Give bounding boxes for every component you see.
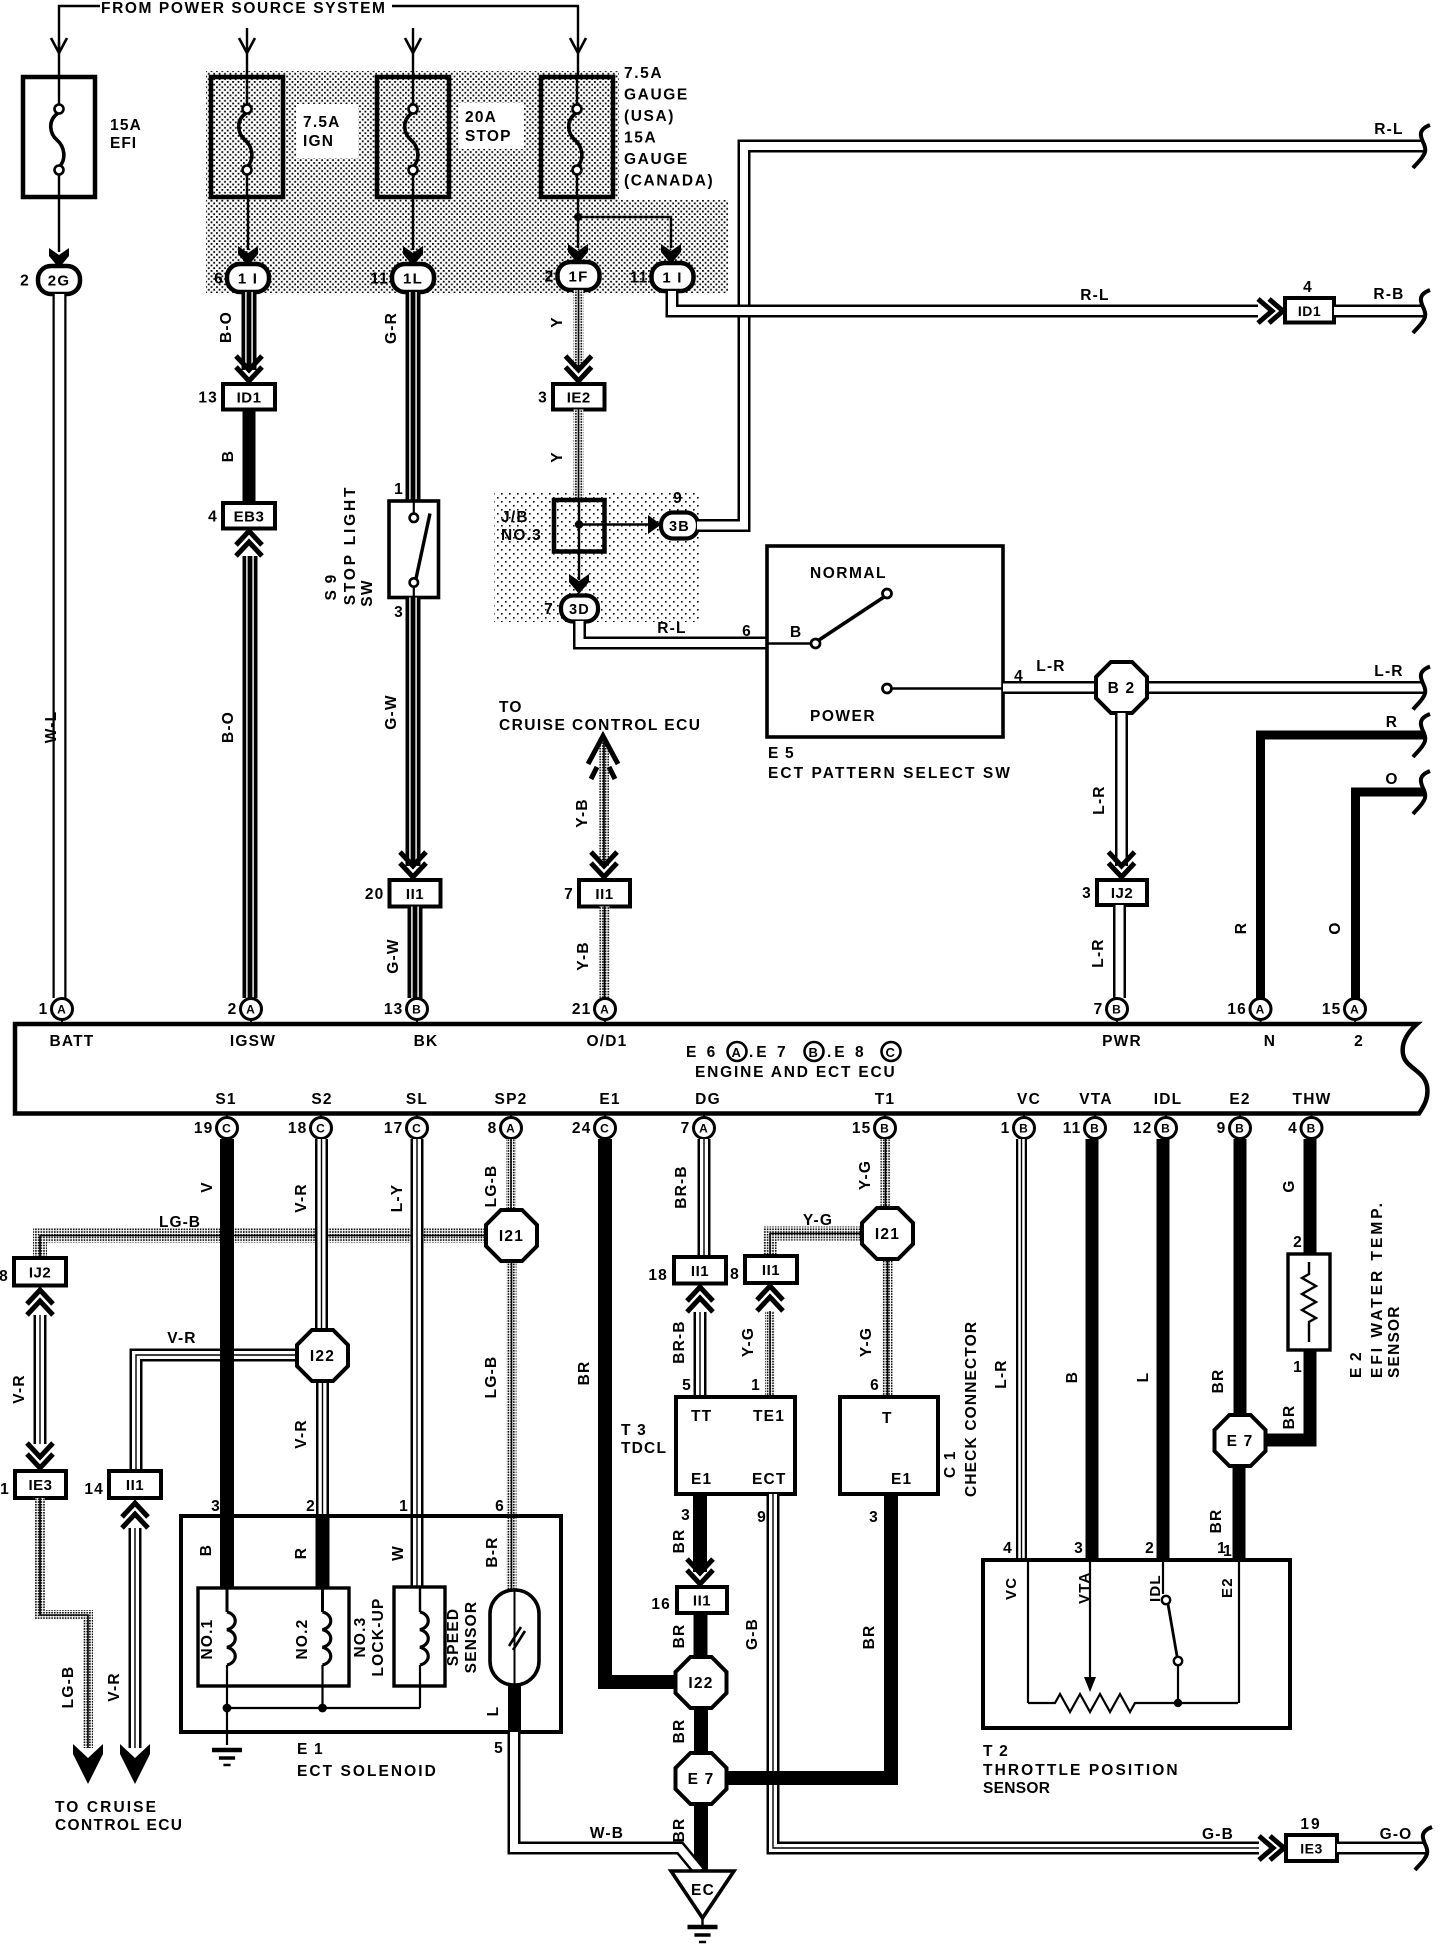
svg-text:Y-G: Y-G (858, 1327, 875, 1357)
svg-text:T 2: T 2 (983, 1743, 1009, 1760)
wire B: VTA to throttle sensor (1086, 1139, 1099, 1560)
wire Y-G: I21 left to II1 (8) (770, 1234, 865, 1257)
svg-text:BR: BR (671, 1719, 688, 1744)
svg-text:A: A (600, 1003, 610, 1017)
wire: feed to GAUGE fuse (577, 34, 579, 77)
svg-text:I22: I22 (688, 1675, 713, 1692)
svg-text:G: G (1281, 1179, 1298, 1192)
ECU pin 7(B) PWR (1116, 998, 1118, 1022)
svg-text:W-L: W-L (43, 711, 60, 744)
svg-text:BR: BR (576, 1361, 593, 1386)
wire G: THW to water temp sensor (1304, 1139, 1317, 1256)
wire: IGN fuse to 1I (247, 197, 249, 250)
svg-text:C: C (316, 1122, 326, 1136)
svg-text:20A: 20A (465, 109, 497, 126)
svg-text:1F: 1F (569, 269, 589, 286)
svg-text:IDL: IDL (1154, 1091, 1183, 1108)
wire G-W: II1 to ECU BK (408, 907, 423, 999)
wire: feed to IGN fuse (246, 28, 248, 77)
svg-text:SPEED: SPEED (445, 1608, 462, 1667)
svg-text:L: L (1135, 1372, 1152, 1383)
svg-text:LG-B: LG-B (60, 1666, 77, 1709)
wire: J/B to 3D (578, 552, 580, 581)
svg-text:C 1: C 1 (942, 1450, 959, 1478)
svg-text:A: A (246, 1003, 256, 1017)
svg-text:7: 7 (1094, 1001, 1104, 1018)
fuse 15A EFI (23, 77, 95, 197)
wire L: IDL to throttle sensor (1157, 1139, 1170, 1560)
svg-text:15: 15 (1322, 1001, 1342, 1018)
svg-text:2: 2 (1293, 1234, 1303, 1251)
svg-text:NORMAL: NORMAL (810, 565, 887, 582)
svg-text:.E 8: .E 8 (827, 1044, 867, 1061)
svg-text:2G: 2G (48, 273, 70, 290)
svg-text:14: 14 (84, 1481, 104, 1498)
wire: feed to STOP fuse (412, 28, 414, 77)
svg-text:B: B (1307, 1122, 1317, 1136)
svg-text:G-W: G-W (383, 694, 400, 729)
ECU pin 15(A) 2 (1354, 998, 1356, 1022)
svg-text:PWR: PWR (1102, 1033, 1142, 1050)
svg-text:GAUGE: GAUGE (624, 151, 689, 168)
svg-text:B: B (220, 450, 237, 462)
wire L-R: IJ2 to ECU PWR (1113, 905, 1126, 998)
svg-text:1 I: 1 I (238, 271, 258, 288)
svg-text:13: 13 (198, 389, 218, 406)
svg-text:BR: BR (861, 1625, 878, 1650)
svg-text:15A: 15A (110, 117, 142, 134)
wire L: speed sensor to pin 5 (508, 1684, 521, 1731)
svg-text:IE2: IE2 (567, 389, 591, 406)
svg-text:4: 4 (1003, 1540, 1013, 1557)
wire L-Y / W: SL to ECT solenoid No.3 (411, 1139, 424, 1588)
svg-text:19: 19 (194, 1120, 214, 1137)
svg-text:ID1: ID1 (237, 389, 262, 406)
wire R-L: 3B up and right to harness (697, 146, 1424, 526)
svg-text:20: 20 (365, 886, 385, 903)
ground (ECT solenoid) (212, 1748, 242, 1753)
svg-text:BR-B: BR-B (671, 1320, 688, 1364)
svg-text:W: W (390, 1545, 407, 1561)
svg-text:IJ2: IJ2 (1111, 885, 1133, 902)
svg-text:18: 18 (288, 1120, 308, 1137)
junction octagon I22 (297, 1330, 348, 1381)
svg-text:16: 16 (651, 1596, 671, 1613)
svg-text:Y: Y (549, 316, 566, 328)
halftone shade region: power-source / fuse block (206, 71, 619, 293)
wire: STOP fuse to 1L (412, 197, 414, 250)
svg-text:THROTTLE POSITION: THROTTLE POSITION (983, 1762, 1180, 1779)
svg-text:BK: BK (414, 1033, 439, 1050)
svg-text:IE3: IE3 (28, 1477, 52, 1494)
svg-text:L-Y: L-Y (389, 1184, 406, 1213)
svg-text:11: 11 (370, 271, 389, 288)
svg-text:V-R: V-R (106, 1672, 123, 1701)
svg-text:BR: BR (671, 1818, 688, 1843)
svg-text:W-B: W-B (590, 1825, 624, 1842)
wire V: S1 to ECT solenoid No.1 (220, 1139, 234, 1592)
wire Y-B: II1 to ECU O/D1 (600, 907, 610, 999)
svg-text:B-R: B-R (484, 1536, 501, 1567)
wire BR: I22 to E7 (694, 1708, 708, 1754)
svg-text:13: 13 (384, 1001, 404, 1018)
svg-text:B 2: B 2 (1108, 680, 1136, 697)
wire W-B: speed sensor to EC (514, 1732, 699, 1871)
svg-text:1: 1 (0, 1481, 10, 1498)
svg-text:B: B (198, 1544, 215, 1556)
svg-text:G-O: G-O (1380, 1826, 1413, 1843)
connector 1F pin 2 (558, 262, 600, 290)
svg-text:O: O (1327, 921, 1344, 934)
svg-text:IE3: IE3 (1300, 1841, 1323, 1857)
svg-text:(USA): (USA) (624, 108, 675, 125)
wire B-O: 1I to ID1 (242, 292, 257, 370)
svg-text:(CANADA): (CANADA) (624, 173, 714, 190)
svg-text:SW: SW (359, 579, 376, 606)
svg-text:GAUGE: GAUGE (624, 87, 689, 104)
svg-text:SENSOR: SENSOR (1386, 1305, 1403, 1378)
wire: GAUGE fuse to 1F and 1I (577, 197, 579, 248)
svg-text:1 I: 1 I (662, 270, 682, 287)
svg-text:E 2: E 2 (1348, 1351, 1365, 1378)
wire LG-B: I21 left to IJ2 (40, 1236, 488, 1259)
wire G-O: IE3 to harness (1337, 1842, 1426, 1855)
svg-text:STOP LIGHT: STOP LIGHT (342, 485, 359, 605)
svg-text:1: 1 (39, 1001, 49, 1018)
svg-text:E 7: E 7 (688, 1771, 715, 1788)
svg-text:G-B: G-B (744, 1618, 761, 1650)
svg-text:V: V (199, 1181, 216, 1193)
connector 1L pin 11 (392, 264, 434, 292)
svg-text:O/D1: O/D1 (587, 1033, 628, 1050)
svg-text:THW: THW (1293, 1091, 1332, 1108)
svg-text:L-R: L-R (993, 1359, 1010, 1388)
wire LG-B: IE3 to cruise control ecu (40, 1498, 88, 1748)
svg-text:EC: EC (691, 1882, 715, 1899)
connector 3 IE2 (553, 384, 605, 410)
connector 8 IJ2 (14, 1258, 66, 1286)
svg-text:3: 3 (394, 604, 404, 621)
svg-text:T: T (882, 1410, 893, 1427)
svg-text:IGN: IGN (303, 133, 334, 150)
connector T3 TDCL (676, 1397, 795, 1494)
wire L-R: VC to throttle sensor (1016, 1139, 1027, 1560)
svg-text:II1: II1 (691, 1263, 709, 1280)
svg-text:S1: S1 (215, 1091, 236, 1108)
svg-text:B-O: B-O (218, 311, 235, 343)
svg-text:N: N (1264, 1033, 1276, 1050)
svg-text:E1: E1 (891, 1471, 912, 1488)
svg-text:21: 21 (572, 1001, 592, 1018)
svg-text:BR: BR (1281, 1405, 1298, 1430)
svg-text:7: 7 (681, 1120, 691, 1137)
svg-text:B: B (809, 1045, 820, 1060)
ECU pin 21(A) O/D1 (604, 998, 606, 1022)
svg-text:ID1: ID1 (1298, 303, 1321, 319)
component T2 THROTTLE POSITION SENSOR (983, 1560, 1290, 1728)
svg-text:R: R (1386, 714, 1398, 731)
connector 16 II1 (677, 1587, 727, 1613)
solenoid No.3 lock-up (394, 1587, 445, 1686)
svg-text:L-R: L-R (1374, 663, 1403, 680)
wire R: harness to ECU N (1261, 735, 1425, 998)
ECU pin 1(A) BATT (61, 998, 63, 1022)
svg-text:A: A (506, 1122, 516, 1136)
ECU title E 6 A / E 7 B / E 8 C (686, 1042, 901, 1061)
svg-text:Y-G: Y-G (857, 1160, 874, 1190)
svg-text:IGSW: IGSW (230, 1033, 276, 1050)
svg-text:8: 8 (488, 1120, 498, 1137)
svg-text:24: 24 (572, 1120, 592, 1137)
wire BR: E7 to EC ground (694, 1804, 708, 1872)
wire BR: E7 right to check connector E1 (726, 1494, 891, 1778)
wire V-R: IJ2 to IE3 (34, 1315, 47, 1444)
svg-text:VC: VC (1017, 1091, 1041, 1108)
svg-text:Y-G: Y-G (803, 1212, 833, 1229)
fuse 7.5A GAUGE (USA) 15A GAUGE (CANADA) (541, 77, 613, 197)
svg-text:T 3: T 3 (621, 1422, 647, 1439)
svg-text:LG-B: LG-B (159, 1214, 201, 1231)
svg-text:B: B (1064, 1371, 1081, 1383)
svg-text:8: 8 (0, 1268, 9, 1285)
svg-text:4: 4 (208, 508, 218, 525)
svg-text:A: A (1256, 1003, 1266, 1017)
svg-text:J/B: J/B (501, 509, 529, 526)
wire R-B: ID1 to harness (1334, 305, 1424, 318)
svg-text:EFI WATER TEMP.: EFI WATER TEMP. (1369, 1200, 1386, 1378)
svg-text:15: 15 (852, 1120, 872, 1137)
svg-text:TDCL: TDCL (621, 1440, 667, 1457)
svg-text:I21: I21 (499, 1228, 524, 1245)
svg-text:V-R: V-R (293, 1419, 310, 1448)
svg-text:12: 12 (1133, 1120, 1153, 1137)
wire V-R: I22 left to II1 (14) (136, 1355, 298, 1470)
svg-text:2: 2 (1145, 1540, 1155, 1557)
svg-text:LOCK-UP: LOCK-UP (370, 1597, 387, 1676)
svg-text:SENSOR: SENSOR (983, 1780, 1050, 1797)
wire BR: II1 to I22 (694, 1613, 708, 1659)
svg-text:G-R: G-R (383, 312, 400, 344)
junction octagon I22 (lower) (676, 1657, 727, 1708)
svg-text:BR: BR (671, 1624, 688, 1649)
junction octagon B 2 (1096, 662, 1147, 713)
wire: from power source system bus (59, 6, 100, 48)
connector 2G pin 2 (38, 266, 80, 294)
svg-text:II1: II1 (406, 886, 424, 903)
svg-text:STOP: STOP (465, 128, 512, 145)
svg-text:6: 6 (870, 1377, 880, 1394)
svg-text:LG-B: LG-B (483, 1356, 500, 1399)
connector 7 II1 (579, 880, 630, 907)
svg-text:R-L: R-L (1374, 121, 1403, 138)
connector 14 II1 (109, 1471, 161, 1498)
svg-text:15A: 15A (624, 130, 657, 147)
svg-text:C: C (222, 1122, 232, 1136)
halftone shade region: J/B No.3 block (494, 492, 700, 622)
svg-text:E2: E2 (1219, 1577, 1236, 1598)
svg-text:TO: TO (499, 699, 523, 716)
svg-text:C: C (886, 1045, 897, 1060)
svg-text:ECT SOLENOID: ECT SOLENOID (297, 1763, 438, 1780)
wire L-R: B2 to harness (1146, 681, 1424, 694)
component E1 ECT SOLENOID box (181, 1516, 561, 1732)
wire: EFI fuse to 2G (58, 197, 60, 252)
svg-text:A: A (1350, 1003, 1360, 1017)
svg-text:L: L (485, 1706, 502, 1717)
wire V-R: II1 to cruise control ecu (129, 1528, 142, 1748)
junction octagon I21 (left) (486, 1210, 537, 1261)
svg-text:IJ2: IJ2 (29, 1264, 51, 1281)
svg-text:LG-B: LG-B (483, 1165, 500, 1208)
svg-text:SENSOR: SENSOR (463, 1601, 480, 1674)
wire BR: E2 to E7 octagon (1234, 1139, 1247, 1417)
svg-text:6: 6 (742, 623, 752, 640)
svg-text:S 9: S 9 (323, 574, 340, 601)
svg-text:BR: BR (1210, 1369, 1227, 1394)
ground EC (671, 1871, 734, 1918)
wire Y-G: T1 to I21 (right) (881, 1139, 891, 1210)
svg-text:SP2: SP2 (495, 1091, 528, 1108)
svg-text:9: 9 (673, 490, 683, 507)
svg-text:E1: E1 (599, 1091, 620, 1108)
svg-text:B: B (1019, 1122, 1029, 1136)
svg-text:1: 1 (1293, 1359, 1303, 1376)
svg-text:11: 11 (1063, 1120, 1082, 1137)
svg-text:3: 3 (1082, 885, 1092, 902)
wire: feed to EFI fuse (58, 42, 60, 77)
svg-text:A: A (732, 1045, 743, 1060)
svg-text:1: 1 (399, 1498, 409, 1515)
wire B: ID1 to EB3 (243, 410, 256, 504)
connector 20 II1 (390, 880, 441, 907)
svg-text:S2: S2 (311, 1091, 332, 1108)
wire O: harness to ECU pin 2 (1356, 792, 1425, 998)
svg-text:POWER: POWER (810, 708, 876, 725)
svg-text:V-R: V-R (11, 1374, 28, 1403)
svg-text:3: 3 (211, 1498, 221, 1515)
svg-text:EB3: EB3 (234, 508, 265, 525)
wire LG-B: I21 down to speed sensor pin 6 (507, 1259, 517, 1590)
svg-text:B-O: B-O (220, 711, 237, 743)
svg-text:G-W: G-W (385, 938, 402, 973)
svg-text:3: 3 (538, 389, 548, 406)
junction octagon E 7 (lower) (676, 1753, 727, 1804)
wire Y-G: I21 down to check connector T (883, 1258, 893, 1396)
wire R-L: 1I to ID1 harness row (672, 291, 1258, 311)
svg-text:1: 1 (1217, 1540, 1227, 1557)
svg-text:11: 11 (630, 270, 649, 287)
connector 13 ID1 (223, 384, 275, 410)
svg-text:TO CRUISE: TO CRUISE (55, 1799, 158, 1816)
ECU pin 2(A) IGSW (250, 998, 252, 1022)
solenoid No.1 / No.2 coils (198, 1588, 349, 1686)
wire BR: ECU E1 to I22 (lower) (605, 1139, 678, 1682)
junction octagon E 7 (right) (1215, 1415, 1266, 1466)
svg-text:E 1: E 1 (297, 1741, 324, 1758)
svg-text:NO.2: NO.2 (294, 1619, 311, 1660)
svg-text:VTA: VTA (1079, 1091, 1112, 1108)
svg-text:3D: 3D (569, 602, 590, 618)
svg-text:5: 5 (494, 1740, 504, 1757)
svg-text:DG: DG (695, 1091, 721, 1108)
svg-text:B: B (1161, 1122, 1171, 1136)
wire B-O: EB3 to ECU IGSW (243, 556, 258, 998)
wire L-R: B2 to IJ2 (1115, 713, 1128, 866)
svg-text:Y-B: Y-B (575, 941, 592, 970)
svg-text:ENGINE AND ECT ECU: ENGINE AND ECT ECU (695, 1064, 896, 1081)
svg-text:E 6: E 6 (686, 1044, 718, 1061)
svg-text:E2: E2 (1229, 1091, 1250, 1108)
svg-text:1: 1 (751, 1377, 761, 1394)
svg-text:2: 2 (545, 269, 555, 286)
svg-text:L-R: L-R (1091, 785, 1108, 814)
connector 1I pin 6 (227, 264, 269, 292)
svg-text:2: 2 (306, 1498, 316, 1515)
svg-text:BR: BR (671, 1529, 688, 1554)
svg-text:E1: E1 (691, 1471, 712, 1488)
svg-text:EFI: EFI (110, 135, 137, 152)
wire Y: 1F to IE2 (574, 290, 584, 370)
svg-text:16: 16 (1227, 1001, 1247, 1018)
svg-text:R-L: R-L (1080, 287, 1109, 304)
wire Y-G: II1 to TDCL TE1 (765, 1311, 775, 1396)
connector 8 II1 (745, 1256, 797, 1283)
svg-text:TE1: TE1 (753, 1408, 785, 1425)
svg-text:7: 7 (544, 601, 554, 618)
svg-text:CRUISE CONTROL ECU: CRUISE CONTROL ECU (499, 717, 701, 734)
svg-text:A: A (699, 1122, 709, 1136)
wire G-R: 1L to stop light sw (406, 292, 421, 501)
svg-text:B: B (412, 1003, 422, 1017)
svg-text:2: 2 (228, 1001, 238, 1018)
wire G-B: TDCL ECT to IE3 (19) (773, 1494, 1259, 1848)
svg-text:CONTROL ECU: CONTROL ECU (55, 1817, 183, 1834)
svg-text:8: 8 (730, 1266, 740, 1283)
connector 18 II1 (674, 1257, 726, 1284)
junction octagon I21 (right) (862, 1208, 913, 1259)
svg-text:7.5A: 7.5A (624, 65, 663, 82)
svg-text:2: 2 (20, 273, 30, 290)
svg-text:A: A (57, 1003, 67, 1017)
svg-text:C: C (412, 1122, 422, 1136)
wire BR-B: DG to II1 (18) (698, 1139, 711, 1256)
solenoid common wire + junctions (226, 1708, 228, 1745)
svg-text:3: 3 (1074, 1540, 1084, 1557)
svg-text:19: 19 (1300, 1816, 1321, 1833)
wire R-L: 3D to ECT pattern select sw (580, 621, 768, 643)
svg-text:TT: TT (691, 1408, 712, 1425)
svg-text:3B: 3B (669, 519, 690, 535)
throttle sensor potentiometer (1027, 1562, 1029, 1703)
svg-text:7.5A: 7.5A (303, 114, 341, 131)
svg-text:II1: II1 (595, 886, 613, 903)
connector 3 IJ2 (1097, 880, 1147, 905)
connector 1I pin 11 (right) (652, 263, 694, 291)
svg-text:R-L: R-L (657, 620, 686, 637)
svg-text:E 7: E 7 (1227, 1433, 1254, 1450)
connector 4 EB3 (223, 503, 275, 529)
svg-text:L-R: L-R (1036, 658, 1065, 675)
svg-text:Y-G: Y-G (740, 1327, 757, 1357)
speed sensor (490, 1590, 539, 1685)
connector 1 IE3 (15, 1471, 66, 1498)
component E2 EFI WATER TEMP. SENSOR (1288, 1254, 1330, 1350)
svg-text:1: 1 (394, 481, 404, 498)
svg-text:SL: SL (406, 1091, 428, 1108)
svg-text:Y-B: Y-B (574, 798, 591, 827)
svg-text:6: 6 (214, 271, 224, 288)
svg-text:BATT: BATT (50, 1033, 95, 1050)
